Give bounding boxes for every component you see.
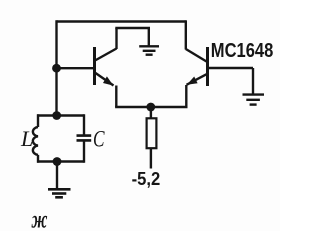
resistor R1 top lead: [150, 107, 152, 118]
wire Q1 collector vertical: [115, 28, 117, 49]
node C (tank top dot): [52, 111, 61, 120]
node A (left base junction dot): [52, 64, 61, 73]
transistor Q1 base bar: [93, 47, 96, 85]
wire top rail: [57, 20, 186, 22]
transistor Q1 emitter arrow: [103, 76, 113, 85]
node D (tank bottom dot): [53, 157, 62, 166]
ground mid (Q1 collector): [139, 46, 159, 54]
wire right ground drop: [252, 68, 254, 94]
transistor Q2 base bar: [206, 47, 209, 86]
wire emitter bus: [115, 106, 187, 108]
wire Q1 emitter vertical: [115, 86, 117, 108]
resistor R1 body: [147, 118, 157, 148]
wire Q2 collector vertical: [185, 20, 187, 49]
capacitor C plates: [77, 136, 92, 141]
transistor Q2 emitter arrow: [187, 77, 198, 85]
wire tank ground drop: [56, 162, 58, 189]
wire inductor top lead: [37, 114, 39, 127]
wire inductor bottom lead: [37, 155, 39, 163]
svg-text:ж: ж: [31, 206, 48, 231]
wire staple to mid ground: [115, 28, 149, 46]
wire Q2 emitter vertical: [185, 85, 187, 107]
transistor Q2 emitter diagonal: [187, 74, 207, 85]
svg-text:C: C: [93, 126, 105, 151]
ground bottom (tank): [48, 189, 71, 197]
resistor R1 bottom lead: [150, 149, 152, 169]
wire capacitor top lead: [83, 114, 85, 134]
wire left base: [57, 67, 95, 69]
node B (emitter bus dot): [146, 103, 155, 112]
transistor Q1 collector diagonal: [95, 49, 117, 61]
ground right (Q2 base): [243, 95, 265, 105]
svg-text:-5,2: -5,2: [132, 169, 161, 189]
wire capacitor bottom lead: [83, 142, 85, 163]
svg-text:L: L: [20, 126, 33, 151]
transistor Q2 collector diagonal: [186, 49, 207, 62]
inductor L coil: [33, 127, 38, 155]
wire tank bottom: [37, 160, 85, 162]
wire left vertical from top rail to tank: [55, 20, 57, 116]
transistor Q1 emitter diagonal: [96, 73, 114, 86]
wire Q2 base to right: [209, 67, 254, 69]
svg-text:MC1648: MC1648: [211, 40, 273, 62]
wire tank feed top: [37, 114, 85, 116]
